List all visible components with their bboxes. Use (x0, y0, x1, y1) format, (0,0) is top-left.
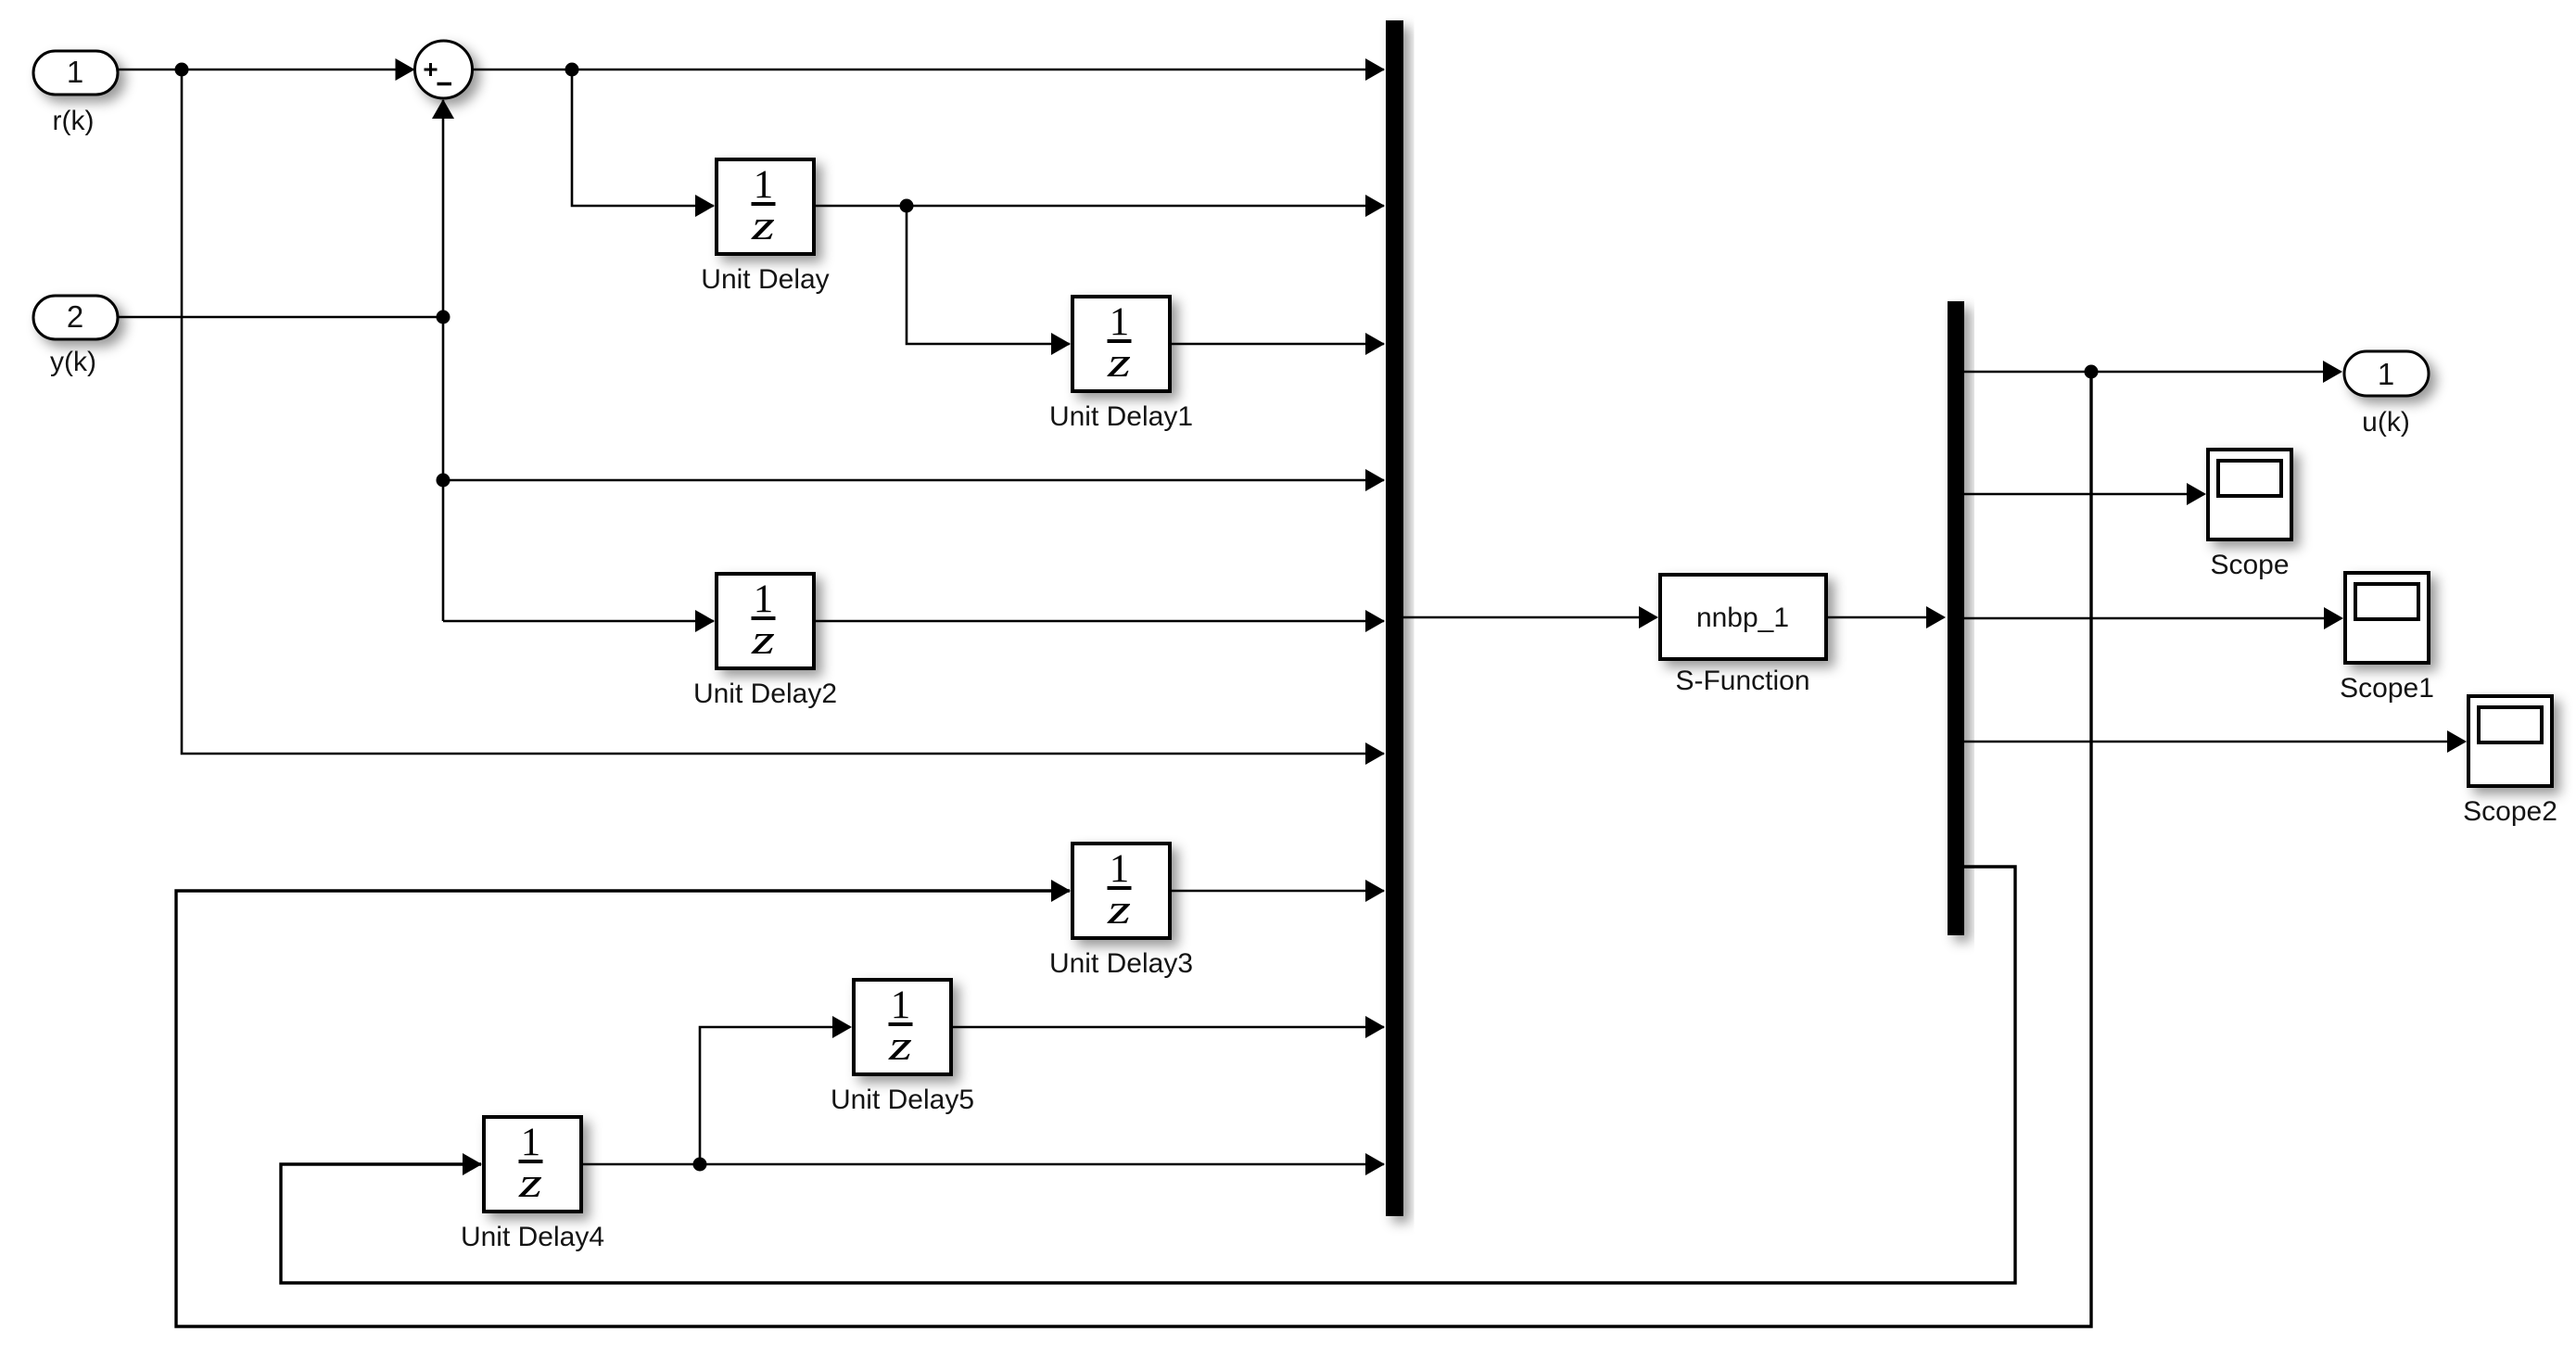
wire Sum output to Mux input 1 (472, 58, 1385, 81)
wire Demux feedback loop to Unit Delay4 input (281, 867, 2015, 1283)
input port 1 r(k) (33, 51, 118, 95)
svg-text:1: 1 (1110, 847, 1130, 891)
junction y(k) to Mux branch (437, 474, 450, 488)
label S-Function (1675, 666, 1809, 696)
wire Unit Delay3 output to Mux input 7 (1170, 880, 1385, 902)
svg-text:1: 1 (521, 1121, 541, 1164)
unit delay block Unit Delay5 (1/z) (854, 980, 951, 1074)
wire y(k) vertical elbow to Unit Delay2 input (443, 610, 715, 632)
label for Unit Delay5 (831, 1085, 974, 1115)
wire branch to Unit Delay5 input (700, 1016, 852, 1164)
Demux block (vertical bar) (1948, 301, 1964, 935)
wire Demux output 2 to Scope (1963, 483, 2206, 505)
wire junction r(k) down to Mux input 6 (182, 70, 1385, 765)
svg-text:z: z (518, 1159, 543, 1206)
junction r(k) branch (175, 63, 189, 77)
output port 1 u(k) (2344, 351, 2429, 396)
wire branch to Unit Delay1 input (907, 206, 1071, 355)
wire Unit Delay output to Mux input 2 (814, 195, 1385, 217)
svg-text:z: z (888, 1021, 913, 1069)
wire branch to Unit Delay input (572, 70, 715, 217)
svg-text:Unit Delay1: Unit Delay1 (1049, 401, 1193, 432)
wire Unit Delay2 output to Mux input 5 (814, 610, 1385, 632)
wire nnbp_1 output to Demux (1826, 606, 1946, 628)
svg-text:1: 1 (2378, 357, 2394, 391)
unit delay block Unit Delay3 (1/z) (1072, 844, 1170, 938)
label y(k) (50, 347, 96, 377)
scope block Scope1 (2345, 573, 2429, 663)
label for Scope (2210, 550, 2289, 580)
label for Unit Delay (701, 264, 829, 295)
svg-text:Scope1: Scope1 (2340, 673, 2434, 704)
unit delay block Unit Delay1 (1/z) (1072, 297, 1170, 391)
unit delay block Unit Delay (1/z) (717, 159, 814, 254)
label for Unit Delay2 (693, 679, 837, 709)
label for Scope1 (2340, 673, 2434, 704)
svg-text:S-Function: S-Function (1675, 666, 1809, 696)
svg-text:1: 1 (67, 55, 83, 89)
input port 2 y(k) (33, 296, 118, 339)
wire u(k) feedback loop to Unit Delay3 input (176, 372, 2091, 1326)
junction y(k) tee (437, 311, 450, 324)
svg-text:1: 1 (754, 577, 774, 621)
label for Unit Delay1 (1049, 401, 1193, 432)
junction u(k) feedback branch (2085, 365, 2099, 379)
svg-text:Scope2: Scope2 (2463, 796, 2557, 827)
svg-text:z: z (751, 615, 776, 663)
label for Unit Delay4 (461, 1222, 604, 1252)
S-Function block nnbp_1 (1660, 575, 1826, 659)
wire Unit Delay1 output to Mux input 3 (1170, 333, 1385, 355)
svg-text:r(k): r(k) (53, 106, 95, 136)
unit delay block Unit Delay4 (1/z) (484, 1117, 581, 1212)
svg-text:y(k): y(k) (50, 347, 96, 377)
svg-text:nnbp_1: nnbp_1 (1696, 603, 1789, 633)
svg-text:z: z (751, 201, 776, 248)
wire Demux output 1 to Out1 u(k) (1963, 361, 2342, 383)
junction Unit Delay output branch (900, 199, 914, 213)
wire Unit Delay4 output to Mux input 9 (581, 1153, 1385, 1175)
sum block (+/-) (415, 41, 473, 98)
wire Unit Delay5 output to Mux input 8 (951, 1016, 1385, 1038)
junction Unit Delay4 output branch (693, 1158, 707, 1172)
svg-text:Scope: Scope (2210, 550, 2289, 580)
label for Unit Delay3 (1049, 948, 1193, 979)
svg-text:Unit Delay3: Unit Delay3 (1049, 948, 1193, 979)
svg-text:1: 1 (1110, 300, 1130, 344)
svg-text:Unit Delay4: Unit Delay4 (461, 1222, 604, 1252)
scope block Scope2 (2468, 696, 2552, 786)
svg-text:1: 1 (754, 163, 774, 207)
svg-text:z: z (1107, 338, 1132, 386)
wire y(k) vertical to Sum minus input and Unit Delay2 (432, 99, 454, 621)
svg-text:Unit Delay: Unit Delay (701, 264, 829, 295)
unit delay block Unit Delay2 (1/z) (717, 574, 814, 668)
wire Demux output 4 to Scope2 (1963, 730, 2467, 753)
svg-text:1: 1 (891, 983, 911, 1027)
svg-text:z: z (1107, 885, 1132, 933)
junction Sum output branch (565, 63, 579, 77)
scope block Scope (2208, 450, 2291, 539)
label u(k) (2362, 407, 2410, 438)
wire In1 r(k) to Sum (118, 58, 415, 81)
wire branch y(k) to Mux input 4 (443, 469, 1385, 491)
svg-text:Unit Delay5: Unit Delay5 (831, 1085, 974, 1115)
label r(k) (53, 106, 95, 136)
svg-text:u(k): u(k) (2362, 407, 2410, 438)
Mux block (vertical bar) (1386, 20, 1403, 1216)
wire Mux output to S-Function nnbp_1 (1403, 606, 1658, 628)
wire In2 y(k) to vertical (118, 316, 443, 319)
svg-text:Unit Delay2: Unit Delay2 (693, 679, 837, 709)
label for Scope2 (2463, 796, 2557, 827)
svg-text:2: 2 (67, 299, 83, 334)
wire Demux output 3 to Scope1 (1963, 607, 2343, 629)
